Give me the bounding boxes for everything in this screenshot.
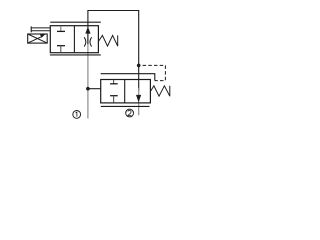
- port 2 label circle: [126, 109, 134, 117]
- valve V2 body (2-position logic element): [101, 80, 151, 103]
- valve V1 right box flow line upper segment: [87, 26, 89, 44]
- valve V1 left box closed port crossbar top: [57, 30, 65, 32]
- spring K1 (right of valve V1): [98, 35, 117, 46]
- valve V1 infinite-positioning underline: [50, 54, 101, 56]
- valve V2 left box closed port stub top (gray): [113, 80, 115, 84]
- junction J2 dot: [137, 64, 141, 68]
- valve V1 variable orifice right arc: [90, 37, 92, 46]
- wire J2 down into valve V2: [138, 65, 140, 91]
- port 1 digit: [76, 112, 77, 117]
- valve V2 overline (infinite positioning / pilot rail): [101, 74, 155, 81]
- valve V2 left box closed port crossbar bottom: [110, 95, 118, 97]
- solenoid A1 proportional arrow diagonal (rising): [28, 36, 42, 43]
- wire gray flow continuation to port 2 stub: [138, 88, 140, 115]
- spring K2 (right of valve V2): [150, 86, 169, 96]
- valve V1 left box closed port stub top (gray): [60, 26, 62, 31]
- pilot line (dashed) from J2 to spring chamber: [143, 65, 166, 80]
- wire gray port line through V1 down to port 1 stub: [87, 34, 89, 119]
- valve V1 variable orifice left arc: [84, 37, 86, 46]
- solenoid A1 diagonal (falling): [28, 34, 48, 43]
- valve V1 left box closed port crossbar bottom: [57, 45, 65, 47]
- solenoid A1 pin end tick: [30, 26, 32, 32]
- valve V2 left box closed port stub bottom (gray): [113, 96, 115, 103]
- wire J1 to valve V2 left port: [88, 88, 101, 90]
- valve V1 position divider: [73, 26, 75, 53]
- port 1 label circle: [73, 111, 81, 119]
- valve V1 left box closed port stub bottom (gray): [60, 46, 62, 53]
- solenoid A1 pin lines: [31, 27, 50, 29]
- junction J1 dot: [86, 87, 90, 91]
- valve V2 left box closed port crossbar top: [110, 83, 118, 85]
- valve V2 underline: [101, 105, 150, 107]
- port 2 digit: [128, 110, 132, 115]
- valve V1 body (2-position proportional throttle): [50, 26, 98, 53]
- wire from valve V1 flow path up and over to node J2: [88, 11, 139, 66]
- valve V2 position divider: [124, 80, 126, 103]
- solenoid A1 box: [28, 34, 48, 43]
- valve V1 infinite-positioning overline: [50, 21, 101, 23]
- valve V2 right box flow arrowhead (down): [136, 95, 141, 102]
- valve V1 right box flow arrowhead (up): [85, 27, 90, 34]
- solenoid A1 proportional arrowhead: [40, 34, 46, 38]
